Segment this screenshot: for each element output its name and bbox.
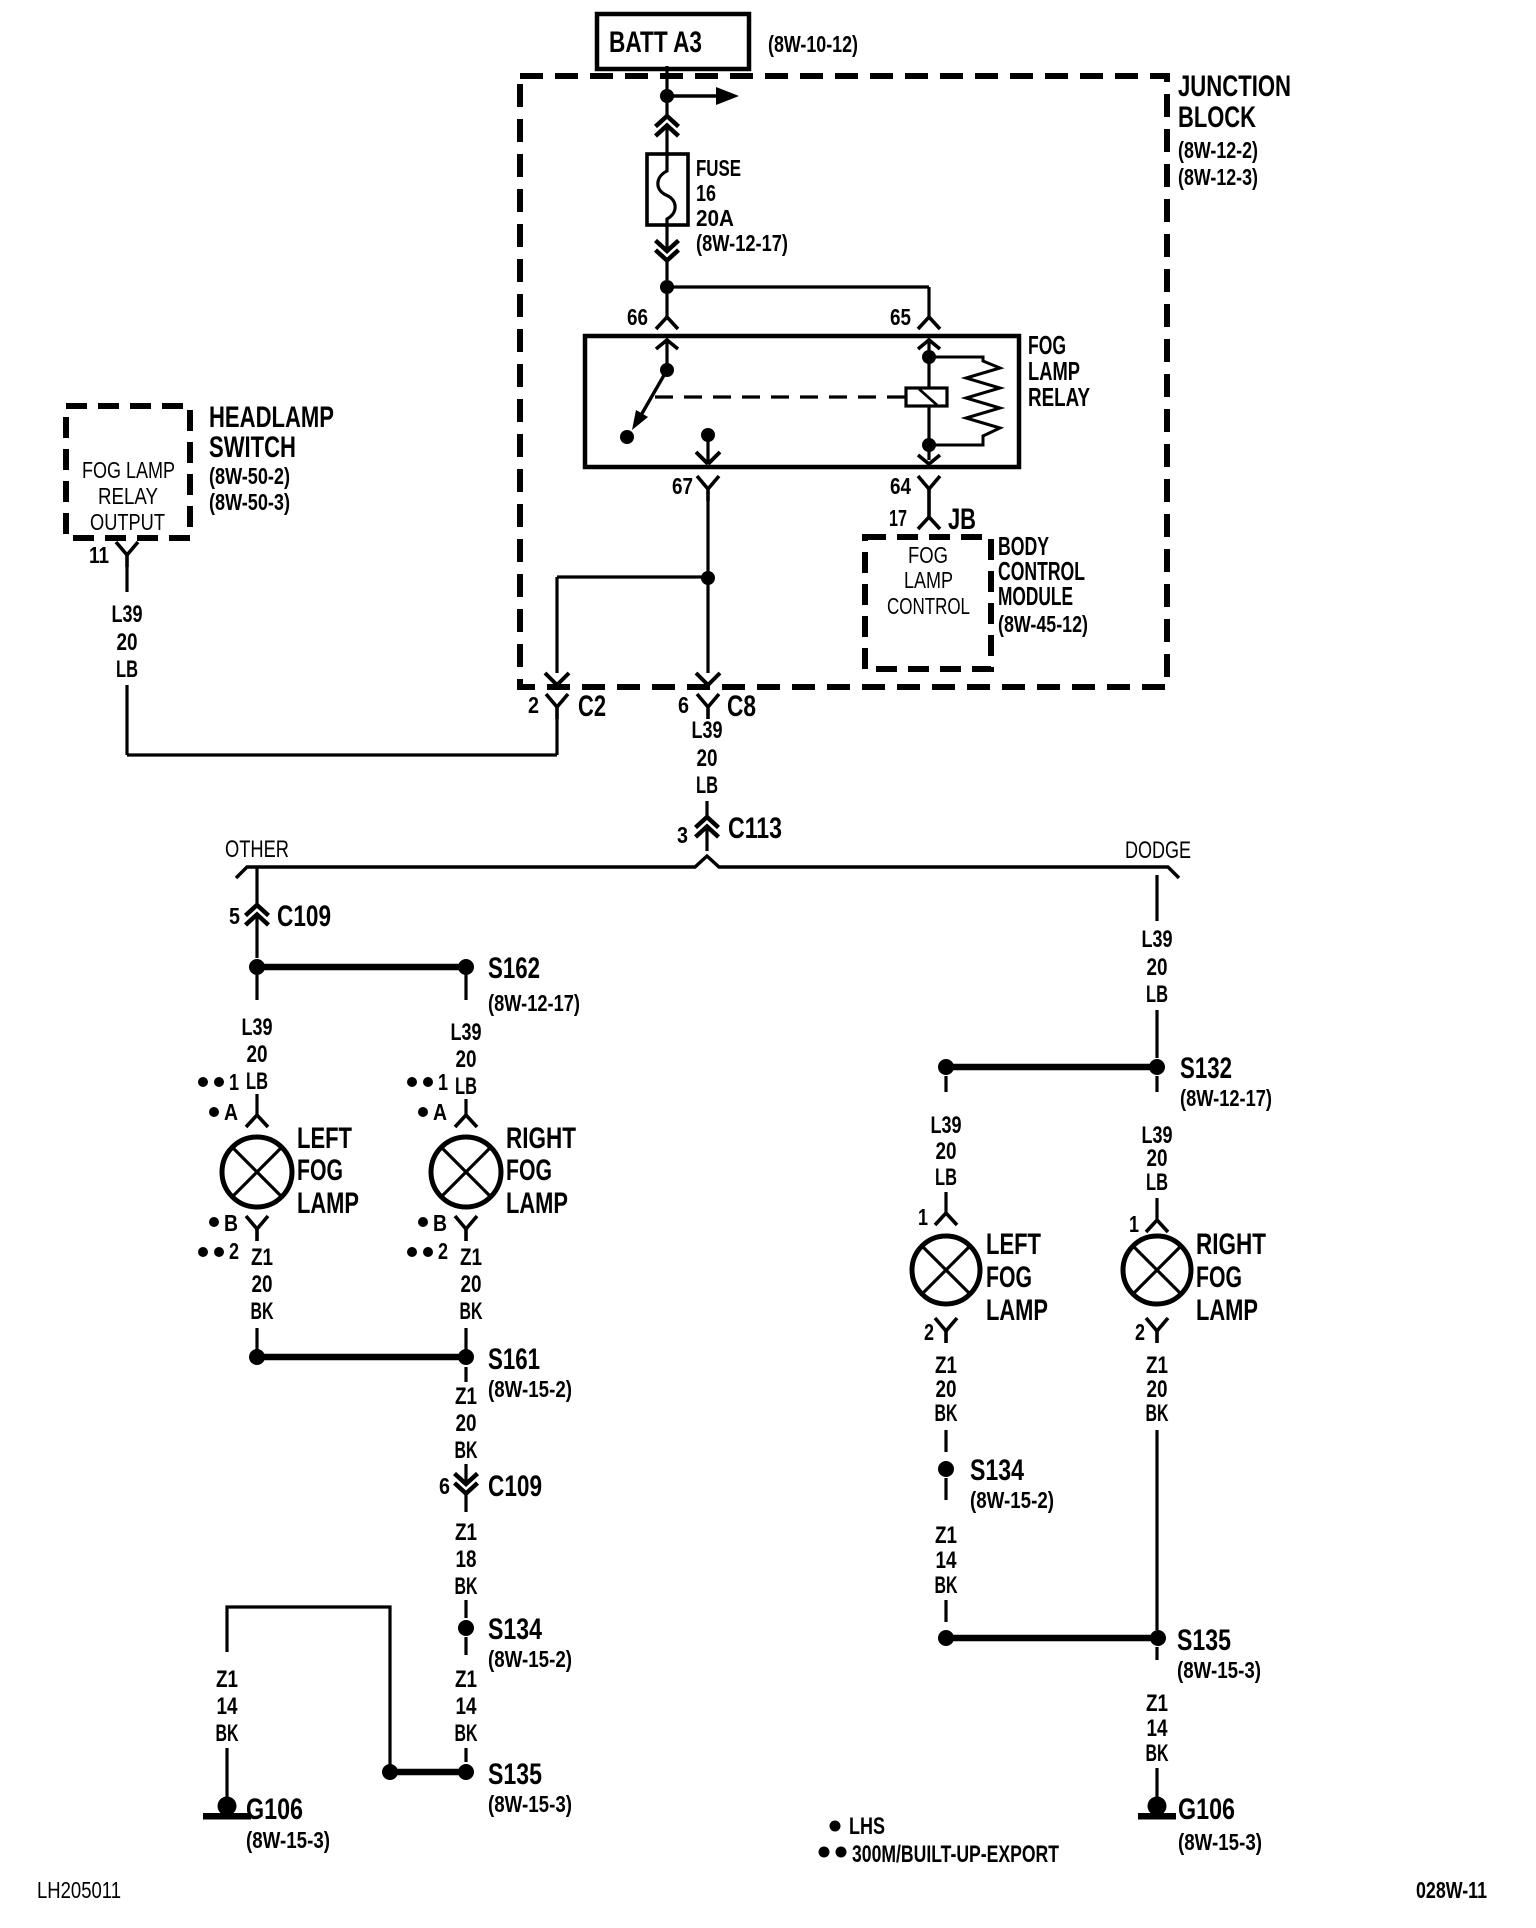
svg-text:CONTROL: CONTROL xyxy=(887,593,970,619)
relay coil wire to pin 64 xyxy=(927,406,930,460)
svg-text:66: 66 xyxy=(627,304,648,330)
svg-text:LB: LB xyxy=(246,1068,268,1095)
wire L39 to right fog lamp (dodge) xyxy=(1155,1076,1158,1092)
node: battery feed junction with arrow to other circuits xyxy=(660,89,674,103)
svg-text:BK: BK xyxy=(460,1298,483,1325)
svg-text:20: 20 xyxy=(936,1138,957,1165)
svg-text:S134: S134 xyxy=(970,1454,1024,1487)
wire Z1 14 BK from S135 to ground G106 (dodge) xyxy=(1155,1647,1158,1660)
svg-text:S132: S132 xyxy=(1180,1052,1232,1085)
svg-text:1: 1 xyxy=(438,1069,448,1095)
build marker dot pin A right lamp xyxy=(418,1107,428,1117)
svg-text:1: 1 xyxy=(1129,1211,1139,1237)
svg-text:BK: BK xyxy=(455,1720,478,1747)
svg-text:(8W-45-12): (8W-45-12) xyxy=(998,611,1088,637)
svg-text:LAMP: LAMP xyxy=(986,1294,1048,1327)
svg-text:MODULE: MODULE xyxy=(998,581,1073,611)
svg-text:Z1: Z1 xyxy=(455,1666,477,1693)
svg-text:2: 2 xyxy=(438,1238,448,1264)
svg-text:S135: S135 xyxy=(1177,1624,1231,1657)
svg-text:20: 20 xyxy=(247,1041,268,1068)
svg-text:FOG: FOG xyxy=(506,1154,552,1187)
right fog lamp (other) pin B connector xyxy=(418,1217,428,1227)
svg-text:(8W-12-3): (8W-12-3) xyxy=(1178,164,1258,190)
svg-text:20: 20 xyxy=(252,1271,273,1298)
svg-text:C109: C109 xyxy=(488,1470,542,1503)
node: relay output splits to C2 and C8 xyxy=(701,571,715,585)
svg-text:(8W-15-3): (8W-15-3) xyxy=(488,1791,572,1817)
svg-text:BK: BK xyxy=(935,1572,958,1599)
relay pin 66 internal chevron xyxy=(656,340,678,349)
svg-text:BK: BK xyxy=(935,1400,958,1427)
svg-text:6: 6 xyxy=(678,692,689,718)
splice S132 xyxy=(1149,1059,1165,1075)
svg-text:SWITCH: SWITCH xyxy=(209,431,296,464)
svg-text:FOG: FOG xyxy=(908,542,948,568)
svg-text:14: 14 xyxy=(217,1693,239,1720)
svg-text:Z1: Z1 xyxy=(455,1519,477,1546)
svg-text:20: 20 xyxy=(117,629,138,656)
svg-text:BK: BK xyxy=(455,1573,478,1600)
relay coil suppression resistor xyxy=(929,357,1000,445)
svg-text:14: 14 xyxy=(456,1693,478,1720)
wire Z1 from S161 to C109 pin 6 xyxy=(464,1367,467,1382)
svg-text:BK: BK xyxy=(216,1720,239,1747)
headlamp switch dashed box: fog lamp relay output xyxy=(66,406,190,538)
svg-text:C2: C2 xyxy=(578,690,606,723)
wire: battery feed from BATT A3 xyxy=(665,66,668,116)
svg-text:1: 1 xyxy=(229,1069,239,1095)
svg-text:20A: 20A xyxy=(696,205,734,231)
svg-text:B: B xyxy=(433,1210,447,1236)
ground G106 (other) xyxy=(218,1797,237,1816)
svg-text:LB: LB xyxy=(1146,981,1168,1008)
svg-text:17: 17 xyxy=(889,505,907,531)
svg-text:LB: LB xyxy=(455,1073,477,1100)
svg-text:RIGHT: RIGHT xyxy=(1196,1228,1266,1261)
svg-text:LB: LB xyxy=(116,656,138,683)
wire Z1 14 BK from S135 to ground G106 (other) xyxy=(227,1607,390,1772)
wire Z1 14 BK from S134 to S135 (dodge) xyxy=(944,1478,947,1500)
svg-text:RELAY: RELAY xyxy=(1028,382,1090,412)
svg-text:FOG: FOG xyxy=(1196,1261,1242,1294)
wire to relay pin 66 xyxy=(665,287,668,317)
splice S134 (dodge) xyxy=(938,1461,954,1477)
svg-text:Z1: Z1 xyxy=(455,1383,477,1410)
fog lamp relay box xyxy=(585,336,1019,467)
wire L39 from bus to S132 xyxy=(1155,875,1158,921)
fuse FUSE 16 20A xyxy=(647,154,688,225)
svg-text:5: 5 xyxy=(229,903,240,929)
svg-text:64: 64 xyxy=(890,473,911,499)
wire L39 to left fog lamp (dodge) xyxy=(944,1076,947,1092)
svg-text:L39: L39 xyxy=(451,1019,482,1046)
svg-text:S134: S134 xyxy=(488,1613,542,1646)
splice S134 (other) xyxy=(458,1620,474,1636)
svg-text:20: 20 xyxy=(936,1376,957,1403)
svg-text:S162: S162 xyxy=(488,952,540,985)
svg-text:LEFT: LEFT xyxy=(986,1228,1041,1261)
svg-text:65: 65 xyxy=(890,304,911,330)
splice bus between OTHER and DODGE builds xyxy=(236,856,1179,878)
splice S135 (dodge) xyxy=(938,1630,954,1646)
splice S135 (other) xyxy=(458,1764,474,1780)
connector JB pin 17 to body control module xyxy=(927,501,931,517)
svg-text:RIGHT: RIGHT xyxy=(506,1122,576,1155)
build marker dot pin A left lamp xyxy=(209,1107,219,1117)
relay coil node bottom xyxy=(922,438,936,452)
svg-text:(8W-15-3): (8W-15-3) xyxy=(1177,1657,1261,1683)
svg-text:Z1: Z1 xyxy=(216,1666,238,1693)
connector symbol: fuse output (double chevron down) xyxy=(665,225,668,251)
svg-text:L39: L39 xyxy=(112,601,143,628)
svg-text:(8W-15-2): (8W-15-2) xyxy=(970,1487,1054,1513)
svg-text:(8W-50-3): (8W-50-3) xyxy=(209,489,290,515)
svg-text:2: 2 xyxy=(924,1319,934,1345)
svg-text:HEADLAMP: HEADLAMP xyxy=(209,401,334,434)
svg-text:BK: BK xyxy=(251,1298,274,1325)
svg-text:BLOCK: BLOCK xyxy=(1178,101,1256,134)
svg-text:(8W-10-12): (8W-10-12) xyxy=(768,31,858,57)
right fog lamp (dodge) bulb xyxy=(1123,1236,1191,1304)
svg-text:Z1: Z1 xyxy=(935,1522,957,1549)
svg-text:A: A xyxy=(433,1099,447,1125)
svg-text:(8W-50-2): (8W-50-2) xyxy=(209,463,290,489)
svg-text:2: 2 xyxy=(528,692,539,718)
svg-text:JUNCTION: JUNCTION xyxy=(1178,70,1291,103)
svg-text:14: 14 xyxy=(1147,1715,1169,1742)
svg-text:14: 14 xyxy=(936,1547,958,1574)
wire L39 to left fog lamp (other) xyxy=(255,975,258,1000)
svg-text:2: 2 xyxy=(1135,1319,1145,1345)
svg-text:LAMP: LAMP xyxy=(506,1187,568,1220)
relay coil box xyxy=(906,388,947,406)
left fog lamp (other) pin B connector xyxy=(209,1217,219,1227)
svg-text:C113: C113 xyxy=(728,812,782,845)
svg-text:LB: LB xyxy=(696,772,718,799)
svg-text:20: 20 xyxy=(461,1271,482,1298)
svg-text:LH205011: LH205011 xyxy=(37,1877,121,1903)
left fog lamp (other) bulb xyxy=(222,1137,292,1207)
svg-text:3: 3 xyxy=(677,822,688,848)
legend marker 300M/BUILT-UP-EXPORT xyxy=(819,1847,830,1858)
svg-text:LAMP: LAMP xyxy=(904,567,953,593)
svg-text:Z1: Z1 xyxy=(251,1244,273,1271)
wire L39 from headlamp switch xyxy=(125,567,128,592)
svg-text:JB: JB xyxy=(948,503,976,536)
relay actuation dashed link xyxy=(655,395,906,398)
ground G106 (dodge) xyxy=(1148,1797,1167,1816)
svg-text:Z1: Z1 xyxy=(935,1352,957,1379)
relay pin 65 internal chevron xyxy=(918,340,940,349)
svg-text:Z1: Z1 xyxy=(1146,1690,1168,1717)
svg-text:(8W-12-2): (8W-12-2) xyxy=(1178,137,1258,163)
legend marker LHS xyxy=(830,1821,841,1832)
svg-text:Z1: Z1 xyxy=(460,1244,482,1271)
svg-text:OUTPUT: OUTPUT xyxy=(90,509,165,535)
svg-text:18: 18 xyxy=(456,1546,477,1573)
svg-text:20: 20 xyxy=(456,1046,477,1073)
svg-text:20: 20 xyxy=(1147,1376,1168,1403)
svg-text:(8W-12-17): (8W-12-17) xyxy=(1180,1085,1272,1111)
svg-text:LEFT: LEFT xyxy=(297,1122,352,1155)
left fog lamp (other) pin 1 connector xyxy=(255,1094,258,1115)
relay coil node top xyxy=(922,350,936,364)
svg-text:LHS: LHS xyxy=(849,1813,885,1840)
svg-text:BK: BK xyxy=(1146,1400,1169,1427)
build marker dots pin 1 left lamp xyxy=(198,1077,208,1087)
svg-text:L39: L39 xyxy=(1142,926,1173,953)
build marker dots pin 1 right lamp xyxy=(407,1077,417,1087)
svg-text:LAMP: LAMP xyxy=(1196,1294,1258,1327)
wire from bus to C109 pin 5 xyxy=(255,868,258,905)
svg-text:(8W-15-2): (8W-15-2) xyxy=(488,1646,572,1672)
svg-text:20: 20 xyxy=(697,745,718,772)
battery source box BATT A3 xyxy=(597,14,749,69)
svg-text:16: 16 xyxy=(696,180,716,206)
svg-text:BATT A3: BATT A3 xyxy=(609,26,702,59)
build marker dots pin 2 left lamp xyxy=(198,1247,208,1257)
wire: relay output branch to C2 xyxy=(557,575,708,578)
svg-text:B: B xyxy=(224,1210,238,1236)
svg-text:G106: G106 xyxy=(1178,1793,1235,1826)
svg-text:S135: S135 xyxy=(488,1758,542,1791)
svg-text:RELAY: RELAY xyxy=(98,483,158,509)
svg-text:C8: C8 xyxy=(727,690,756,723)
svg-text:FOG: FOG xyxy=(986,1261,1032,1294)
svg-text:LB: LB xyxy=(1146,1169,1168,1196)
right fog lamp (other) pin 1 connector xyxy=(464,1099,467,1115)
svg-text:2: 2 xyxy=(229,1238,239,1264)
relay switch: normally-open contact node xyxy=(620,430,634,444)
svg-text:L39: L39 xyxy=(692,717,723,744)
relay pin 64 internal chevron xyxy=(918,455,940,464)
svg-text:(8W-15-2): (8W-15-2) xyxy=(488,1376,572,1402)
svg-text:OTHER: OTHER xyxy=(225,836,289,863)
svg-text:1: 1 xyxy=(918,1204,928,1230)
svg-text:20: 20 xyxy=(1147,1145,1168,1172)
svg-text:BK: BK xyxy=(1146,1740,1169,1767)
svg-text:FOG LAMP: FOG LAMP xyxy=(82,457,175,483)
svg-text:(8W-12-17): (8W-12-17) xyxy=(488,990,580,1016)
svg-text:FOG: FOG xyxy=(297,1154,343,1187)
svg-text:(8W-15-3): (8W-15-3) xyxy=(1178,1829,1262,1855)
svg-text:300M/BUILT-UP-EXPORT: 300M/BUILT-UP-EXPORT xyxy=(852,1841,1059,1868)
svg-text:BK: BK xyxy=(455,1437,478,1464)
svg-text:67: 67 xyxy=(672,473,693,499)
svg-text:Z1: Z1 xyxy=(1146,1352,1168,1379)
svg-text:L39: L39 xyxy=(931,1112,962,1139)
svg-text:028W-11: 028W-11 xyxy=(1416,1877,1487,1903)
svg-text:S161: S161 xyxy=(488,1343,540,1376)
svg-text:DODGE: DODGE xyxy=(1125,837,1191,864)
svg-text:(8W-15-3): (8W-15-3) xyxy=(246,1827,330,1853)
svg-text:L39: L39 xyxy=(242,1014,273,1041)
svg-text:A: A xyxy=(224,1099,238,1125)
svg-text:20: 20 xyxy=(456,1410,477,1437)
left fog lamp (dodge) bulb xyxy=(912,1236,980,1304)
svg-text:LB: LB xyxy=(935,1164,957,1191)
junction block dashed boundary xyxy=(520,76,1167,687)
wire L39 to right fog lamp (other) xyxy=(464,975,467,1000)
splice S162 xyxy=(249,959,265,975)
svg-text:20: 20 xyxy=(1147,954,1168,981)
wire to relay pin 65 xyxy=(667,285,929,288)
svg-text:FUSE: FUSE xyxy=(696,155,741,181)
svg-text:(8W-12-17): (8W-12-17) xyxy=(696,230,788,256)
wire Z1 14 BK from S134 to S135 (other) xyxy=(464,1637,467,1655)
svg-text:LAMP: LAMP xyxy=(297,1187,359,1220)
svg-text:11: 11 xyxy=(89,542,109,568)
build marker dots pin 2 right lamp xyxy=(407,1247,417,1257)
node: fused feed splits to relay pins 66 and 65 xyxy=(660,280,674,294)
relay pin 67 node xyxy=(701,428,715,442)
wire: relay output pin 67 down to C8 xyxy=(706,501,709,572)
right fog lamp (other) bulb xyxy=(431,1137,501,1207)
svg-text:6: 6 xyxy=(439,1473,450,1499)
splice S161 xyxy=(249,1349,265,1365)
body control module dashed box xyxy=(865,537,991,669)
svg-text:C109: C109 xyxy=(277,900,331,933)
relay switch: common contact node xyxy=(660,363,674,377)
relay pin 67 wire with arrow to box edge xyxy=(706,435,709,464)
svg-text:G106: G106 xyxy=(246,1793,303,1826)
relay switch arm with arrow xyxy=(640,370,667,417)
connector symbol: feed into fuse (double chevron up) xyxy=(656,116,679,127)
